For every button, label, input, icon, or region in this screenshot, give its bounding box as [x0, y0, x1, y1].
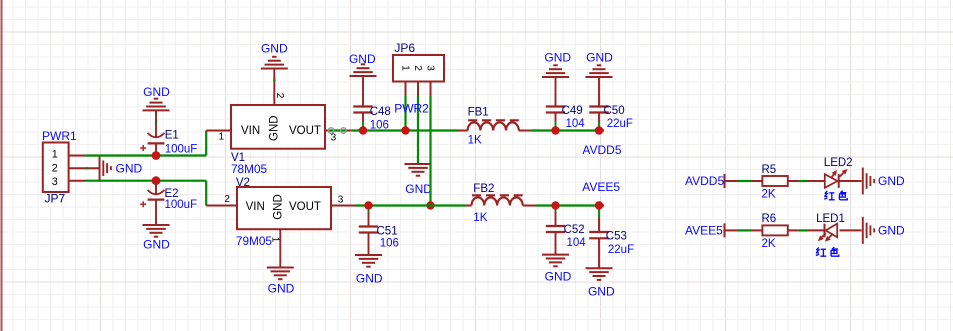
svg-text:GND: GND [349, 52, 376, 66]
svg-text:PWR1: PWR1 [42, 129, 77, 143]
svg-text:106: 106 [380, 237, 399, 249]
svg-text:GND: GND [143, 85, 170, 99]
svg-text:3: 3 [52, 176, 58, 188]
svg-text:100uF: 100uF [165, 199, 198, 211]
svg-text:C50: C50 [604, 105, 625, 117]
svg-text:GND: GND [143, 238, 170, 252]
svg-text:E2: E2 [165, 188, 179, 200]
svg-text:1: 1 [52, 149, 58, 161]
svg-text:C53: C53 [606, 231, 627, 243]
svg-text:1K: 1K [473, 212, 487, 224]
svg-text:FB2: FB2 [473, 183, 494, 195]
svg-text:100uF: 100uF [165, 143, 198, 155]
svg-text:C49: C49 [562, 105, 583, 117]
svg-text:3: 3 [331, 132, 337, 143]
svg-text:AVDD5: AVDD5 [685, 174, 724, 188]
svg-text:2K: 2K [762, 189, 776, 201]
svg-text:GND: GND [588, 284, 615, 298]
svg-text:1: 1 [399, 65, 410, 71]
svg-text:VOUT: VOUT [289, 125, 321, 137]
svg-text:C48: C48 [370, 106, 391, 118]
svg-text:22uF: 22uF [608, 244, 634, 256]
svg-text:GND: GND [545, 270, 572, 284]
svg-text:1K: 1K [468, 135, 482, 147]
svg-text:JP6: JP6 [394, 41, 415, 55]
svg-text:GND: GND [878, 224, 905, 238]
svg-text:1: 1 [219, 132, 225, 143]
svg-text:GND: GND [273, 194, 285, 220]
svg-text:GND: GND [405, 182, 432, 196]
svg-text:GND: GND [878, 174, 905, 188]
svg-text:78M05: 78M05 [231, 162, 268, 176]
svg-text:2: 2 [274, 93, 285, 99]
svg-text:GND: GND [586, 51, 613, 65]
svg-text:2: 2 [52, 163, 58, 175]
svg-text:GND: GND [268, 281, 295, 295]
svg-text:2K: 2K [762, 238, 776, 250]
svg-text:1: 1 [270, 237, 281, 243]
svg-text:PWR2: PWR2 [394, 102, 429, 116]
svg-text:106: 106 [370, 120, 389, 132]
svg-text:AVEE5: AVEE5 [685, 223, 723, 237]
svg-text:R6: R6 [762, 213, 777, 225]
svg-text:3: 3 [338, 194, 344, 205]
svg-text:VIN: VIN [241, 125, 260, 137]
svg-text:V2: V2 [236, 177, 250, 189]
svg-text:3: 3 [424, 65, 435, 71]
svg-text:FB1: FB1 [468, 106, 489, 118]
svg-text:104: 104 [567, 237, 587, 249]
svg-text:JP7: JP7 [45, 192, 66, 206]
svg-text:104: 104 [566, 118, 586, 130]
svg-text:C51: C51 [377, 225, 398, 237]
svg-text:AVDD5: AVDD5 [582, 143, 621, 157]
svg-text:AVEE5: AVEE5 [582, 180, 620, 194]
svg-text:LED1: LED1 [816, 213, 845, 225]
svg-text:GND: GND [544, 51, 571, 65]
svg-text:LED2: LED2 [824, 157, 853, 169]
svg-text:E1: E1 [165, 130, 179, 142]
svg-text:GND: GND [261, 41, 288, 55]
svg-text:VIN: VIN [246, 201, 265, 213]
svg-text:22uF: 22uF [607, 118, 633, 130]
svg-text:2: 2 [412, 65, 423, 71]
svg-text:GND: GND [268, 115, 280, 141]
svg-text:VOUT: VOUT [289, 201, 321, 213]
svg-text:GND: GND [356, 271, 383, 285]
svg-text:2: 2 [224, 194, 230, 205]
svg-text:R5: R5 [762, 164, 777, 176]
svg-text:79M05: 79M05 [236, 234, 273, 248]
svg-text:GND: GND [116, 161, 143, 175]
svg-text:C52: C52 [564, 224, 585, 236]
